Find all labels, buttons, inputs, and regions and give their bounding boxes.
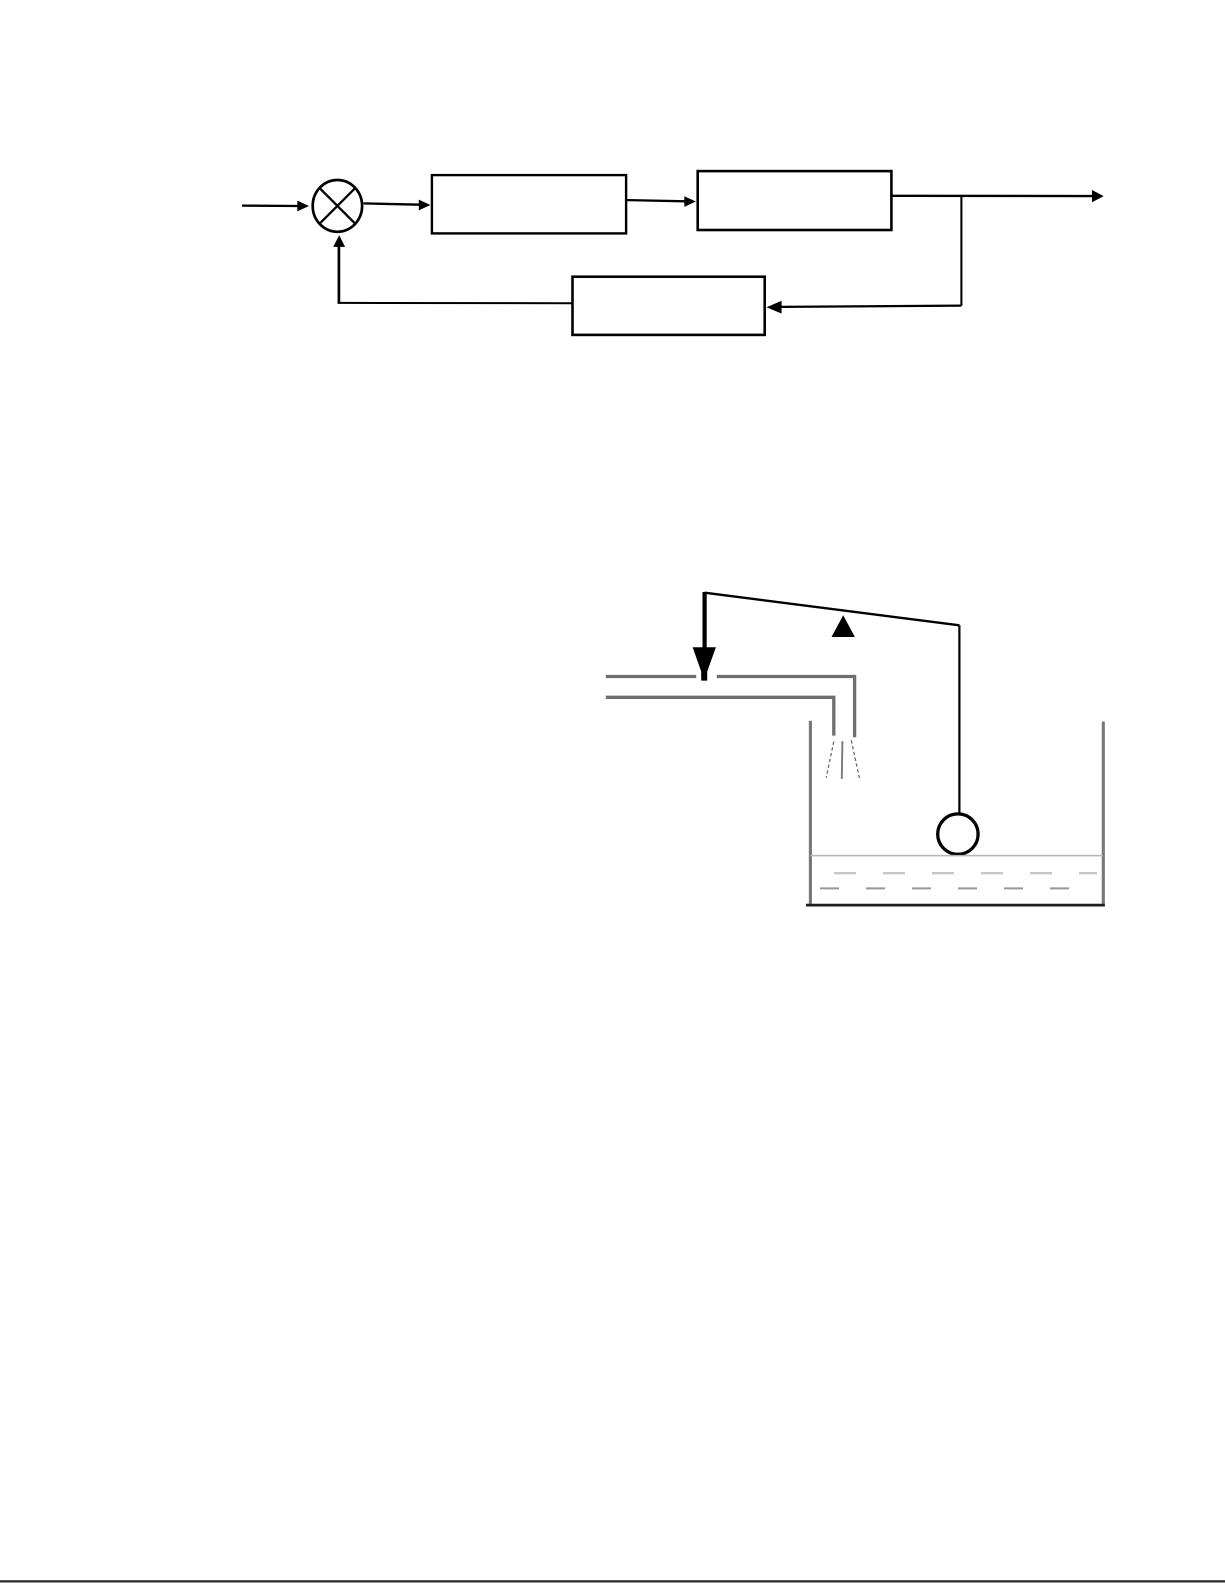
pipe: bottom wall with downward elbow xyxy=(606,697,834,735)
spray line right (dashed) xyxy=(851,740,859,778)
page bottom rule xyxy=(0,1580,1225,1582)
water surface line xyxy=(811,855,1104,857)
pipe: top wall left segment xyxy=(606,675,696,678)
lever arm of float valve xyxy=(705,593,960,626)
spray line middle xyxy=(841,741,844,779)
block G1 (controller box, empty) xyxy=(432,175,626,233)
wire: feedback into block H1 (arrow pointing left) xyxy=(767,301,962,314)
spray line left (dashed) xyxy=(826,742,834,778)
wire: input arrow into summing junction xyxy=(242,201,309,212)
wire: block H1 back to summing junction xyxy=(333,235,572,304)
wire: summing junction to block G1 xyxy=(364,200,431,211)
float rod (vertical line from lever to float) xyxy=(958,625,960,813)
tank bottom xyxy=(806,904,1105,907)
wire: feedback branch vertical drop xyxy=(960,196,962,306)
valve plunger arrowhead (solid, pointing down into pipe gap) xyxy=(693,647,716,680)
summing junction S1 (circle with X) xyxy=(313,180,362,232)
tank right wall xyxy=(1102,722,1105,905)
wire: block G1 to block G2 xyxy=(627,196,696,207)
tank left wall xyxy=(809,721,812,904)
fulcrum pivot triangle (solid, pointing up under lever) xyxy=(832,615,855,637)
valve plunger shaft (thick vertical line) xyxy=(702,592,706,649)
wire: output line from block G2 with arrowhead xyxy=(892,190,1104,202)
water dashes row 2 xyxy=(820,887,1086,889)
float ball (circle resting on water) xyxy=(938,814,978,854)
block G2 (plant box, empty) xyxy=(698,171,892,230)
water dashes row 1 xyxy=(834,872,1097,874)
block H1 (feedback box, empty) xyxy=(573,277,765,335)
pipe: top wall right segment with downward elbow xyxy=(717,677,855,738)
